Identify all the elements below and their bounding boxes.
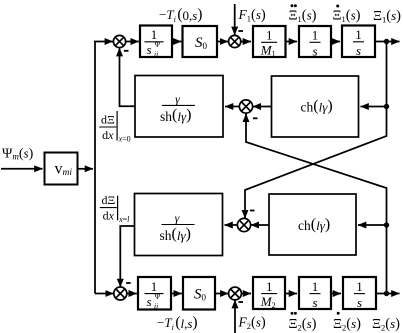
svg-text:s: s [357,295,362,310]
svg-text:dx: dx [103,209,115,223]
svg-text:sh(lγ): sh(lγ) [160,226,191,244]
svg-text:ch(lγ): ch(lγ) [301,98,333,115]
svg-text:F1(s): F1(s) [238,7,266,24]
svg-text:1: 1 [312,28,319,43]
svg-text:1: 1 [312,279,319,294]
svg-text:F2(s): F2(s) [238,315,266,332]
svg-text:ij: ij [154,50,158,59]
svg-text:Ξ1(s): Ξ1(s) [333,8,361,25]
svg-text:s: s [312,295,317,310]
svg-text:Ψ: Ψ [155,40,161,49]
svg-text:ij: ij [154,301,158,310]
svg-text:s: s [147,294,152,309]
svg-text:dΞ: dΞ [101,193,115,207]
svg-text:x=l: x=l [118,215,130,224]
svg-text:Ξ1(s): Ξ1(s) [289,8,317,25]
svg-text:−Ti(l,s): −Ti(l,s) [157,314,198,332]
svg-text:Ξ2(s): Ξ2(s) [372,316,400,333]
svg-text:Ξ2(s): Ξ2(s) [289,316,317,333]
svg-text:−Ti(0,s): −Ti(0,s) [159,6,202,24]
svg-text:1: 1 [355,27,362,42]
svg-text:dΞ: dΞ [101,113,115,127]
svg-text:Ξ2(s): Ξ2(s) [333,316,361,333]
svg-text:1: 1 [266,28,273,43]
svg-text:Ψ: Ψ [155,292,161,301]
svg-text:ch(lγ): ch(lγ) [298,216,330,233]
svg-text:1: 1 [356,279,363,294]
svg-text:dx: dx [102,128,114,142]
svg-text:γ: γ [175,92,180,106]
svg-text:s: s [147,42,152,57]
svg-text:s: s [312,44,317,59]
svg-text:γ: γ [175,211,180,225]
svg-text:sh(lγ): sh(lγ) [160,106,191,124]
svg-text:s: s [356,43,361,58]
svg-text:1: 1 [266,279,273,294]
svg-text:x=0: x=0 [118,135,131,144]
svg-text:Ξ1(s): Ξ1(s) [373,8,401,25]
